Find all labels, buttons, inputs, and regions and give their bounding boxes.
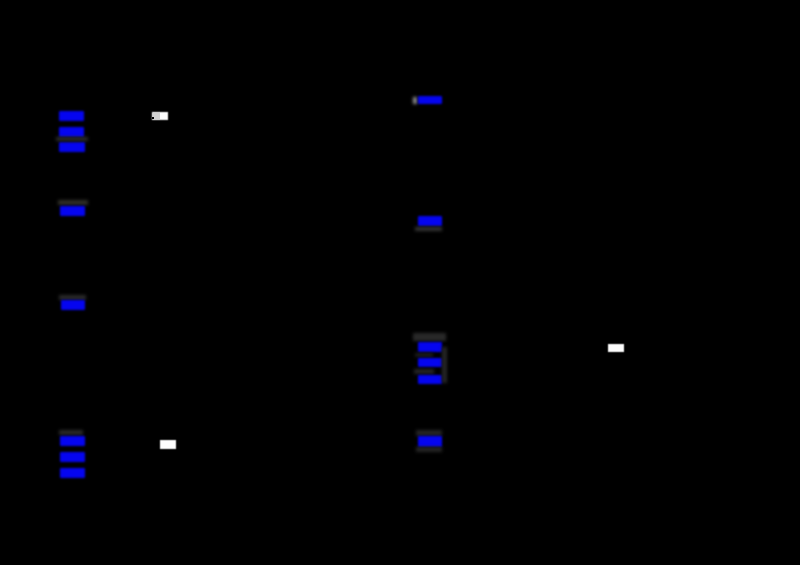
link R3 xyxy=(418,342,443,352)
faint text smear above L4 xyxy=(58,200,88,205)
faint gray mark left of R1 xyxy=(413,97,417,105)
faint text smear above R6 xyxy=(416,430,442,436)
link L2 xyxy=(59,127,84,137)
icon white right column xyxy=(608,344,624,352)
link L5 xyxy=(61,300,85,311)
icon white top-left xyxy=(152,112,168,120)
link L8 xyxy=(60,468,86,478)
link R5 xyxy=(418,375,443,385)
link L6 xyxy=(60,436,85,447)
link R1 xyxy=(418,96,442,105)
link R2 xyxy=(418,216,442,227)
icon white top-left shade xyxy=(153,113,160,119)
icon white top-left notch xyxy=(152,117,154,119)
faint text smear above L6 xyxy=(59,430,83,435)
faint text smear above L5 xyxy=(59,295,86,300)
faint gray edge right of R3-R5 xyxy=(442,347,447,383)
link L4 xyxy=(60,206,85,216)
faint text smear below R2 xyxy=(415,227,442,232)
faint gray band between R3 and R4 xyxy=(415,353,433,357)
link L1 xyxy=(59,111,84,121)
icon white bottom-left xyxy=(160,440,176,449)
link L7 xyxy=(60,452,85,462)
link R6 xyxy=(418,436,442,447)
faint text smear above R3 xyxy=(413,333,446,341)
link L3 xyxy=(59,142,85,153)
faint text smear below R6 xyxy=(416,447,442,452)
link R4 xyxy=(418,358,443,368)
faint text smear left group1 xyxy=(56,137,88,142)
faint gray band between R4 and R5 xyxy=(414,369,434,374)
